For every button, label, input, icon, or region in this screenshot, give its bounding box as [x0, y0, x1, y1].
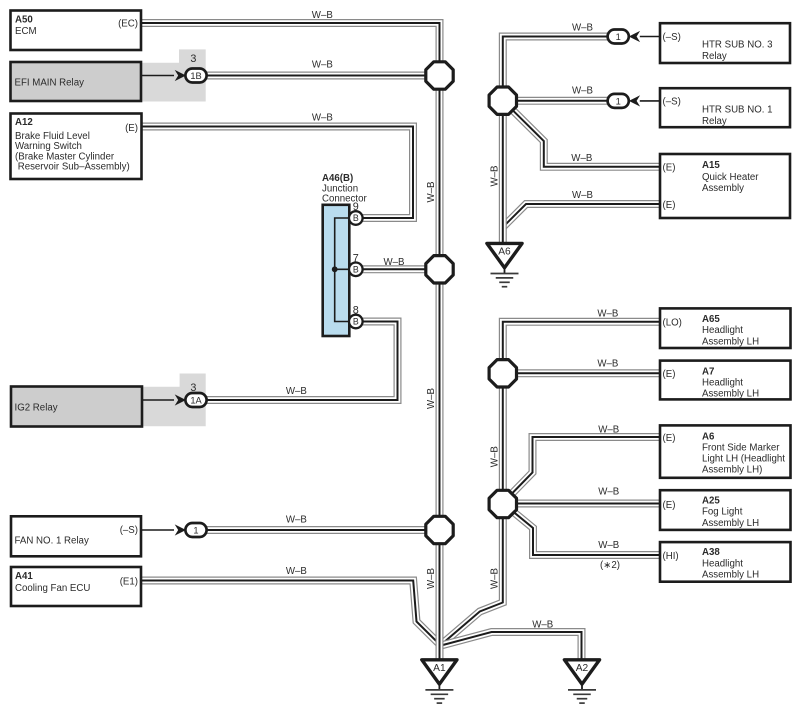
junction connector A46(B) body	[323, 205, 350, 336]
svg-text:Assembly LH: Assembly LH	[702, 570, 759, 581]
wire W-B from A15 (E) upper to junction J4	[513, 111, 660, 167]
ground A1	[422, 660, 457, 703]
svg-text:HTR SUB NO. 3: HTR SUB NO. 3	[702, 40, 773, 51]
label A7 text	[663, 366, 760, 399]
wire W-B from junction J5 to A7 (E)	[517, 369, 660, 377]
junction connector pin 9 terminal B	[349, 211, 363, 225]
wire W-B right branch from junction J6 down to ground node A1	[441, 518, 503, 645]
svg-text:A1: A1	[433, 663, 446, 674]
svg-text:A65: A65	[702, 314, 720, 325]
component A50 ECM	[11, 11, 142, 51]
svg-text:1: 1	[193, 525, 198, 535]
component HTR SUB NO. 3 Relay	[660, 23, 790, 63]
svg-text:Cooling Fan ECU: Cooling Fan ECU	[15, 583, 90, 594]
arrow into oval 1A	[175, 394, 186, 405]
svg-text:(E): (E)	[663, 433, 676, 444]
svg-text:B: B	[353, 213, 359, 223]
svg-text:Front Side Marker: Front Side Marker	[702, 442, 780, 453]
svg-text:W–B: W–B	[572, 190, 593, 201]
svg-text:B: B	[353, 317, 359, 327]
svg-text:3: 3	[190, 53, 196, 65]
junction connector pin 8 terminal B	[349, 315, 363, 329]
svg-text:FAN NO. 1 Relay: FAN NO. 1 Relay	[15, 536, 89, 547]
wire lead arrow to HTR SUB NO. 3 relay	[640, 36, 660, 38]
svg-text:W–B: W–B	[426, 568, 437, 589]
wire W-B from A6 (E) to junction J6	[512, 437, 660, 494]
svg-text:W–B: W–B	[571, 153, 592, 164]
svg-text:(E): (E)	[663, 369, 676, 380]
junction connector internal bus bar	[332, 218, 352, 322]
junction J4 on right trunk (HTR relays / A15)	[489, 87, 516, 114]
arrow into oval 1B	[175, 70, 186, 81]
svg-text:W–B: W–B	[572, 23, 593, 34]
wire W-B from A12 (E) to junction connector pin 9	[141, 127, 413, 219]
wire W-B from FAN NO. 1 relay oval to junction J3	[206, 526, 427, 534]
junction J6 lamp branch (A6/A25/A38)	[489, 490, 516, 517]
svg-text:(E): (E)	[125, 123, 138, 134]
wire lead FAN NO. 1 relay to arrow	[141, 529, 174, 531]
junction J3 on main trunk (FAN relay branch)	[426, 516, 453, 543]
label HTR SUB NO. 3 Relay text	[663, 32, 773, 62]
svg-text:1B: 1B	[190, 71, 201, 81]
connector oval 1B	[185, 69, 206, 83]
wire W-B from EFI MAIN relay oval 1B to junction J1	[206, 72, 427, 80]
junction J1 on main trunk (EFI branch)	[426, 62, 453, 89]
svg-text:IG2 Relay: IG2 Relay	[15, 403, 58, 414]
svg-text:W–B: W–B	[426, 388, 437, 409]
component A12 Brake Fluid Level Warning Switch	[11, 114, 142, 180]
svg-text:Fog Light: Fog Light	[702, 507, 743, 518]
svg-text:A2: A2	[576, 663, 589, 674]
svg-text:W–B: W–B	[532, 620, 553, 631]
svg-text:W–B: W–B	[598, 424, 619, 435]
svg-text:HTR SUB NO. 1: HTR SUB NO. 1	[702, 105, 773, 116]
svg-text:3: 3	[190, 382, 196, 394]
wire lead arrow to HTR SUB NO. 1 relay	[640, 100, 660, 102]
svg-text:W–B: W–B	[426, 182, 437, 203]
svg-text:7: 7	[353, 252, 359, 264]
connector oval 1A	[185, 393, 206, 407]
component A7 Headlight Assembly LH	[660, 361, 791, 400]
component EFI MAIN Relay	[11, 62, 142, 101]
svg-text:Assembly LH: Assembly LH	[702, 336, 759, 347]
svg-text:A46(B): A46(B)	[322, 173, 353, 184]
svg-text:W–B: W–B	[598, 486, 619, 497]
svg-text:A12: A12	[15, 117, 33, 128]
svg-text:(HI): (HI)	[663, 551, 679, 562]
svg-text:W–B: W–B	[286, 386, 307, 397]
svg-text:(–S): (–S)	[120, 525, 138, 536]
wire W-B from A15 (E) lower joining ground A6 lead	[504, 204, 661, 227]
component A41 Cooling Fan ECU	[11, 567, 141, 606]
component A6 Front Side Marker Light LH	[660, 425, 791, 477]
svg-text:W–B: W–B	[286, 566, 307, 577]
wire W-B from A41 (E1) to ground node A1	[141, 581, 440, 645]
svg-text:Connector: Connector	[322, 194, 367, 205]
wire W-B from A65 (LO) to junction J5	[503, 322, 660, 360]
arrow from HTR SUB NO. 1 relay	[629, 95, 640, 106]
svg-text:Assembly LH: Assembly LH	[702, 389, 759, 400]
svg-text:Quick Heater: Quick Heater	[702, 172, 759, 183]
svg-text:A50: A50	[15, 15, 33, 26]
label HTR SUB NO. 1 Relay text	[663, 97, 773, 128]
wire W-B from junction J6 to A25 (E)	[517, 500, 660, 508]
svg-text:(E): (E)	[663, 500, 676, 511]
svg-text:A41: A41	[15, 571, 33, 582]
svg-text:Assembly LH): Assembly LH)	[702, 464, 762, 475]
svg-text:(–S): (–S)	[663, 32, 681, 43]
svg-text:W–B: W–B	[384, 257, 405, 268]
label A12 text	[15, 117, 138, 173]
shaded band EFI MAIN relay connector area	[141, 49, 206, 101]
wire W-B vertical between junction J5 and junction J6	[499, 373, 507, 504]
svg-text:A38: A38	[702, 547, 720, 558]
label A38 text	[663, 547, 760, 580]
svg-text:W–B: W–B	[598, 540, 619, 551]
svg-text:Warning Switch: Warning Switch	[15, 141, 82, 152]
connector oval 1 of FAN relay	[185, 523, 206, 537]
wire W-B from junction connector pin 7 to junction J2	[363, 265, 427, 273]
label A6 text	[663, 431, 786, 475]
label A65 text	[663, 314, 760, 347]
junction connector pin 7 terminal B	[349, 263, 363, 277]
svg-text:(E1): (E1)	[120, 577, 138, 588]
svg-text:Reservoir Sub–Assembly): Reservoir Sub–Assembly)	[15, 162, 130, 173]
label FAN NO. 1 Relay text	[15, 525, 139, 547]
svg-text:W–B: W–B	[597, 308, 618, 319]
wire W-B main trunk from A50 (EC) down to ground A1	[141, 23, 440, 660]
svg-text:Assembly: Assembly	[702, 183, 744, 194]
wire W-B right trunk from HTR SUB NO. 3 relay through junction J4 to ground A6	[503, 37, 608, 244]
svg-text:Relay: Relay	[702, 51, 727, 62]
connector oval 1 of HTR SUB NO. 1 relay	[608, 94, 629, 108]
wire W-B from junction J4 to HTR SUB NO. 1 relay oval	[517, 97, 607, 105]
component A38 Headlight Assembly LH	[660, 542, 791, 582]
svg-text:A6: A6	[498, 247, 511, 258]
wire lead IG2 relay to arrow	[142, 399, 174, 401]
label A15 text	[663, 160, 760, 211]
svg-text:W–B: W–B	[597, 358, 618, 369]
component HTR SUB NO. 1 Relay	[660, 88, 790, 127]
svg-text:8: 8	[353, 304, 359, 316]
svg-text:W–B: W–B	[286, 515, 307, 526]
junction J5 headlight branch (A65/A7)	[489, 360, 516, 387]
svg-text:W–B: W–B	[312, 113, 333, 124]
svg-text:(E): (E)	[663, 200, 676, 211]
svg-text:Assembly LH: Assembly LH	[702, 518, 759, 529]
label A50 ECM text	[15, 15, 138, 38]
svg-text:Headlight: Headlight	[702, 325, 743, 336]
svg-text:W–B: W–B	[572, 86, 593, 97]
svg-text:A25: A25	[702, 495, 720, 506]
svg-text:(∗2): (∗2)	[600, 560, 620, 571]
component A65 Headlight Assembly LH	[660, 308, 791, 348]
svg-text:(LO): (LO)	[663, 318, 682, 329]
svg-text:Light LH (Headlight: Light LH (Headlight	[702, 453, 785, 464]
svg-text:1: 1	[616, 32, 621, 42]
svg-text:1A: 1A	[190, 395, 202, 405]
svg-text:W–B: W–B	[489, 166, 500, 187]
svg-text:A7: A7	[702, 366, 714, 377]
svg-text:1: 1	[616, 96, 621, 106]
svg-text:(–S): (–S)	[663, 97, 681, 108]
svg-text:EFI MAIN Relay: EFI MAIN Relay	[15, 78, 85, 89]
svg-text:W–B: W–B	[312, 10, 333, 21]
svg-text:A15: A15	[702, 160, 720, 171]
svg-text:ECM: ECM	[15, 26, 37, 37]
junction J2 on main trunk (junction connector pin 7 branch)	[426, 256, 453, 283]
component FAN NO. 1 Relay	[11, 516, 141, 556]
svg-text:(EC): (EC)	[118, 19, 138, 30]
wire W-B from ground node A1 junction to ground A2	[441, 632, 582, 659]
svg-text:Headlight: Headlight	[702, 558, 743, 569]
label A25 text	[663, 495, 760, 528]
svg-text:Headlight: Headlight	[702, 378, 743, 389]
arrow from HTR SUB NO. 3 relay	[629, 31, 640, 42]
svg-text:B: B	[353, 264, 359, 274]
svg-text:W–B: W–B	[312, 60, 333, 71]
component IG2 Relay	[11, 387, 142, 427]
shaded band IG2 relay connector area	[142, 374, 206, 427]
connector oval 1 of HTR SUB NO. 3 relay	[608, 30, 629, 44]
label A46(B) Junction Connector	[322, 173, 367, 205]
svg-text:(E): (E)	[663, 163, 676, 174]
svg-text:9: 9	[353, 201, 359, 213]
arrow into FAN relay oval	[175, 524, 186, 535]
ground A6	[487, 243, 522, 286]
svg-text:W–B: W–B	[489, 568, 500, 589]
wire W-B from A38 (HI) to junction J6	[512, 510, 661, 555]
component A15 Quick Heater Assembly	[660, 154, 790, 218]
svg-text:W–B: W–B	[489, 446, 500, 467]
svg-text:A6: A6	[702, 431, 715, 442]
label A41 text	[15, 571, 138, 594]
wire W-B from junction connector pin 8 to IG2 relay oval 1A	[206, 322, 397, 401]
component A25 Fog Light Assembly LH	[660, 490, 791, 530]
svg-text:Relay: Relay	[702, 116, 727, 127]
ground A2	[564, 660, 599, 703]
wire lead EFI MAIN relay to arrow	[141, 75, 174, 77]
